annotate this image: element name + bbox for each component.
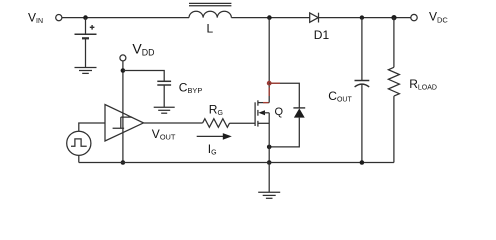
wire drain node to body diode (269, 83, 299, 108)
wire node to battery (85, 18, 87, 35)
arrow IG (197, 133, 232, 140)
battery VIN source (75, 25, 97, 38)
red net highlight stubs (263, 83, 280, 102)
junction VDD node (121, 68, 126, 73)
wire pulse to driver input (79, 123, 105, 131)
wire VIN to inductor (62, 17, 189, 19)
junction source rail (267, 160, 272, 165)
junction drain node (267, 81, 272, 86)
capacitor CBYP (157, 81, 171, 85)
capacitor COUT (355, 81, 370, 87)
resistor RG (203, 119, 230, 128)
wire diode to VDC (319, 17, 411, 19)
wire CBYP to ground (163, 85, 165, 107)
junction source node (267, 145, 272, 150)
svg-text:RLOAD: RLOAD (409, 77, 437, 92)
svg-text:COUT: COUT (328, 89, 352, 104)
wire rail to ground (268, 163, 270, 193)
junction input node (83, 15, 88, 20)
terminal VIN (56, 15, 62, 21)
wire COUT to rail (361, 84, 363, 162)
wire battery to ground (85, 38, 87, 67)
wire drain up to switch node (268, 18, 270, 103)
svg-text:VDC: VDC (429, 9, 448, 24)
svg-text:VOUT: VOUT (152, 127, 176, 142)
terminal VDC (411, 14, 417, 20)
svg-text:D1: D1 (314, 28, 330, 42)
wire driver to RG (144, 122, 203, 124)
wire pulse to ground rail (78, 155, 80, 162)
wire RLOAD to rail (393, 96, 395, 162)
svg-text:VIN: VIN (28, 11, 43, 26)
capacitor COUT wire from top (361, 18, 363, 81)
wire RG to gate (230, 122, 256, 124)
body diode of Q (293, 108, 305, 118)
pulse source (67, 131, 91, 155)
junction switch node (267, 15, 272, 20)
ground input (75, 68, 97, 74)
bottom ground rail wire (79, 162, 394, 164)
junction driver ground rail (121, 160, 126, 165)
svg-text:L: L (207, 22, 214, 36)
diode D1 (310, 13, 319, 23)
svg-text:Q: Q (275, 106, 284, 118)
wire RLOAD from top (393, 18, 395, 68)
wire VDD to CBYP (123, 71, 164, 82)
ground power (258, 192, 280, 198)
op-amp driver U1 (105, 105, 144, 142)
ground CBYP (154, 107, 175, 113)
inductor L (189, 3, 231, 17)
svg-text:IG: IG (208, 142, 217, 157)
wire body diode to source node (269, 118, 299, 147)
junction COUT rail (360, 160, 365, 165)
resistor RLOAD (388, 67, 399, 96)
wire inductor to diode (231, 17, 309, 19)
transistor Q (255, 100, 269, 126)
wire VDD rail down (122, 61, 124, 163)
junction RLOAD top node (391, 15, 396, 20)
svg-text:VDD: VDD (132, 40, 154, 57)
junction COUT top node (360, 15, 364, 19)
svg-text:CBYP: CBYP (179, 80, 203, 95)
svg-text:RG: RG (209, 102, 223, 117)
terminal VDD (120, 55, 126, 61)
wire source to rail (268, 113, 270, 163)
